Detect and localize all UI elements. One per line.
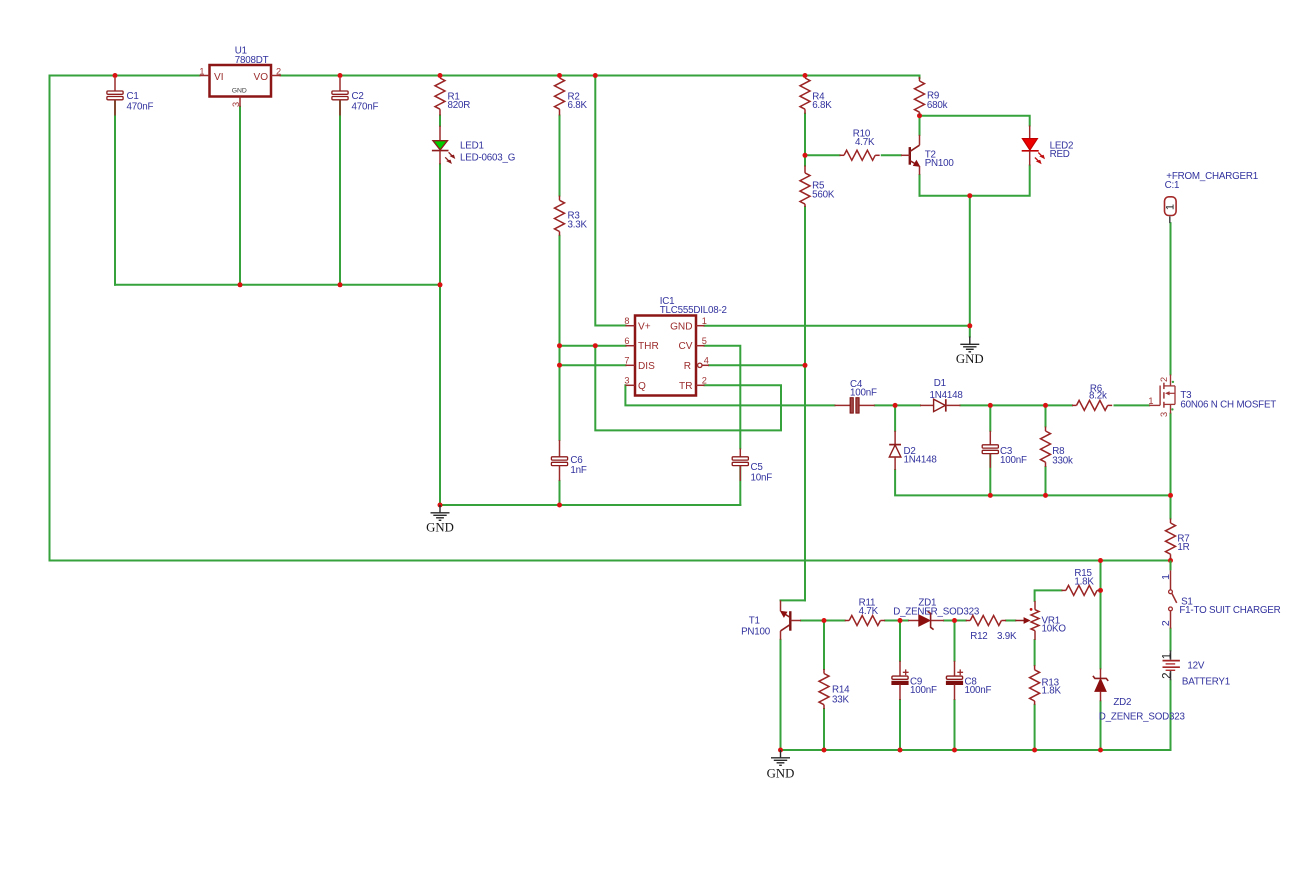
svg-text:3.9K: 3.9K <box>997 631 1017 642</box>
wire R1-LED1 joints <box>439 116 441 126</box>
node C2 bottom <box>338 282 343 287</box>
wire top rail right segment <box>281 76 920 79</box>
wire C8 bottom <box>954 700 956 750</box>
switch S1 <box>1160 561 1281 629</box>
svg-text:V+: V+ <box>638 322 651 333</box>
wire T2 loop bottom <box>920 166 1030 196</box>
wire C6 bottom <box>559 481 561 505</box>
node R8 top <box>1043 403 1048 408</box>
svg-text:TR: TR <box>679 381 692 392</box>
node gnd T1 <box>778 748 783 753</box>
wire R12 left <box>955 620 966 622</box>
svg-text:DIS: DIS <box>638 361 655 372</box>
wire battery to gnd rail <box>781 680 1171 750</box>
svg-text:100nF: 100nF <box>1000 455 1027 466</box>
resistor R15 <box>1062 568 1101 595</box>
svg-text:10nF: 10nF <box>751 472 773 483</box>
svg-text:LED-0603_G: LED-0603_G <box>460 152 515 163</box>
wire gnd stub x970 <box>969 196 971 337</box>
wire IC gnd pin line <box>705 325 970 327</box>
node R9 bottom <box>917 113 922 118</box>
wire T1 emitter feed <box>781 599 806 601</box>
resistor R3 <box>555 196 588 236</box>
wire R11 to C9 node <box>885 620 908 622</box>
svg-text:GND: GND <box>767 767 795 781</box>
IC IC1 TLC555DIL08-2 <box>624 296 726 396</box>
svg-text:3.3K: 3.3K <box>568 220 588 231</box>
node V+ rail tap <box>593 73 598 78</box>
svg-text:470nF: 470nF <box>352 101 379 112</box>
zener diode ZD2 <box>1093 668 1186 722</box>
wire base rail segments <box>824 620 845 622</box>
transistor T2 PN100 <box>901 135 955 175</box>
svg-text:7808DT: 7808DT <box>235 55 269 66</box>
svg-text:60N06 N CH MOSFET: 60N06 N CH MOSFET <box>1180 399 1276 410</box>
wire R9 bottom to T2 collector <box>919 116 921 135</box>
resistor R9 <box>915 77 948 116</box>
wire C5 bottom <box>739 466 741 505</box>
wire R5 bottom long vertical <box>804 207 806 601</box>
transistor T1 PN100 <box>741 600 801 639</box>
wire R7 bottom <box>1170 559 1172 561</box>
node source rail right <box>1168 493 1173 498</box>
svg-text:1N4148: 1N4148 <box>904 455 938 466</box>
resistor R4 <box>800 78 832 114</box>
node LED1 rail <box>438 282 443 287</box>
zener diode ZD1 <box>893 598 980 630</box>
svg-text:1: 1 <box>1148 396 1153 406</box>
svg-text:2: 2 <box>1161 672 1173 678</box>
wire R7 top <box>1170 495 1172 518</box>
wire R10 left <box>805 154 840 156</box>
resistor R6 <box>1072 384 1112 411</box>
node gnd C8 <box>952 748 957 753</box>
node gnd ZD2 <box>1098 748 1103 753</box>
capacitor C9 <box>892 661 937 700</box>
node R4 top <box>803 73 808 78</box>
wire R15 right node <box>1100 589 1101 591</box>
connector +FROM_CHARGER1 <box>1165 171 1258 223</box>
wire R13 bottom <box>1034 705 1036 750</box>
capacitor C6 <box>551 440 586 481</box>
node R2 top <box>557 73 562 78</box>
svg-text:10KO: 10KO <box>1042 624 1067 635</box>
svg-text:2: 2 <box>276 67 281 77</box>
resistor R2 <box>555 78 588 116</box>
svg-text:GND: GND <box>670 322 692 333</box>
svg-text:100nF: 100nF <box>910 685 937 696</box>
wire R8 top <box>1045 405 1047 426</box>
wire R3 to THR/DIS column <box>559 236 561 440</box>
svg-text:3: 3 <box>231 102 241 107</box>
wire C2 column lower <box>339 100 341 285</box>
svg-text:1: 1 <box>199 67 204 77</box>
svg-text:1.8K: 1.8K <box>1042 685 1062 696</box>
svg-text:2: 2 <box>702 375 707 385</box>
svg-text:C5: C5 <box>751 462 764 473</box>
svg-text:VI: VI <box>214 72 224 83</box>
ground symbol GND right <box>956 337 984 367</box>
svg-text:560K: 560K <box>812 190 835 201</box>
resistor R7 <box>1166 519 1190 559</box>
svg-text:BATTERY1: BATTERY1 <box>1182 677 1230 688</box>
wire V+ feed vertical <box>595 76 625 326</box>
LED LED1 <box>432 126 515 165</box>
wire mid gnd rail y285 <box>115 284 440 286</box>
resistor R13 <box>1030 665 1062 705</box>
svg-text:1: 1 <box>1160 574 1172 580</box>
svg-text:+FROM_CHARGER1: +FROM_CHARGER1 <box>1166 171 1258 182</box>
capacitor C5 <box>732 448 772 483</box>
svg-text:4.7K: 4.7K <box>859 606 879 617</box>
svg-text:8.2k: 8.2k <box>1089 391 1107 402</box>
wire C3 node to R6 <box>1046 404 1073 406</box>
node gnd rail x440 <box>438 503 443 508</box>
wire R14 top <box>823 621 825 670</box>
node THR loop tap <box>593 343 598 348</box>
node THR left <box>557 343 562 348</box>
capacitor C4 <box>835 379 877 413</box>
ground symbol GND bottom <box>767 750 795 781</box>
node C6 bottom <box>557 503 562 508</box>
wire C3 top <box>989 405 991 430</box>
svg-text:GND: GND <box>426 521 454 535</box>
svg-text:R12: R12 <box>970 631 987 642</box>
capacitor C1 <box>107 78 154 116</box>
resistor R12 <box>966 616 1017 643</box>
svg-text:2: 2 <box>1160 620 1172 626</box>
node ZD2 top rail <box>1098 558 1103 563</box>
svg-text:3: 3 <box>624 375 629 385</box>
wire D1 to C3 node <box>961 404 1046 406</box>
resistor R10 <box>840 129 880 161</box>
svg-text:820R: 820R <box>448 100 471 111</box>
wire ZD2 column lower <box>1100 701 1102 750</box>
battery BATTERY1 12V <box>1161 650 1230 687</box>
svg-text:6.8K: 6.8K <box>812 100 832 111</box>
wire R10 right to T2 base <box>882 154 901 156</box>
wire CV to C5 <box>705 346 741 449</box>
svg-text:5: 5 <box>702 336 707 346</box>
resistor R11 <box>845 597 885 625</box>
svg-text:7: 7 <box>624 355 629 365</box>
wire THR-TR loop <box>595 346 781 431</box>
node R15 right <box>1098 588 1103 593</box>
regulator U1 7808DT <box>199 46 281 108</box>
wire charger to T3 drain <box>1170 223 1172 374</box>
wire VR1 to R13 <box>1034 640 1036 665</box>
node C1 top <box>113 73 118 78</box>
svg-text:GND: GND <box>956 352 984 366</box>
wire D2 top <box>894 405 896 430</box>
svg-text:T1: T1 <box>749 615 760 626</box>
wire R12 right to VR1 wiper <box>1006 620 1015 622</box>
node C3 bottom <box>988 493 993 498</box>
wire R4R5 divider column <box>804 114 806 166</box>
wire D2 bottom <box>895 470 1170 495</box>
wire U1 pin3 column <box>239 107 241 285</box>
svg-text:VO: VO <box>254 72 269 83</box>
svg-text:1N4148: 1N4148 <box>930 390 964 401</box>
node T2 emitter rail <box>967 193 972 198</box>
svg-text:F1-TO SUIT CHARGER: F1-TO SUIT CHARGER <box>1179 605 1280 616</box>
wire C4 to D1 node <box>875 404 920 406</box>
svg-text:1nF: 1nF <box>570 465 586 476</box>
node C9 top <box>898 618 903 623</box>
svg-text:CV: CV <box>678 341 692 352</box>
wire C9 top <box>899 621 901 661</box>
wire long bottom rail y560 <box>50 560 1171 562</box>
capacitor C8 <box>946 661 991 700</box>
resistor R1 <box>435 78 470 116</box>
svg-text:LED1: LED1 <box>460 141 484 152</box>
svg-text:D_ZENER_SOD323: D_ZENER_SOD323 <box>893 606 980 617</box>
diode D2 1N4148 <box>889 431 937 470</box>
wire C1 column lower <box>114 100 116 285</box>
svg-text:TLC555DIL08-2: TLC555DIL08-2 <box>660 305 727 316</box>
svg-text:8: 8 <box>624 316 629 326</box>
potentiometer VR1 <box>1015 601 1066 640</box>
capacitor C2 <box>332 78 379 116</box>
MOSFET T3 60N06 <box>1148 375 1276 418</box>
node C2 top <box>338 73 343 78</box>
wire LED1 to mid rail <box>439 164 441 284</box>
wire gnd rail y505 <box>440 504 740 506</box>
node gnd R14 <box>822 748 827 753</box>
node T1 base R14 <box>822 618 827 623</box>
svg-text:1: 1 <box>1165 204 1177 210</box>
wire R pin line <box>709 364 805 366</box>
node U1 gnd rail <box>238 282 243 287</box>
svg-text:PN100: PN100 <box>741 627 771 638</box>
wire R6 to T3 gate <box>1115 404 1150 406</box>
svg-text:330k: 330k <box>1052 455 1073 466</box>
node R4 R5 junction <box>803 153 808 158</box>
node R8 bottom <box>1043 493 1048 498</box>
wire T3 source to rail <box>1170 414 1172 496</box>
svg-text:D_ZENER_SOD323: D_ZENER_SOD323 <box>1099 712 1186 723</box>
wire T1 base segment <box>801 620 824 622</box>
LED LED2 <box>1022 126 1074 166</box>
svg-text:4.7K: 4.7K <box>855 137 875 148</box>
svg-text:D1: D1 <box>934 378 946 389</box>
wire S1 to battery <box>1170 629 1172 651</box>
diode D1 1N4148 <box>920 378 963 411</box>
resistor R8 <box>1041 427 1074 467</box>
svg-text:680k: 680k <box>927 100 948 111</box>
wire R14 bottom <box>823 709 825 750</box>
wire T2 emitter down <box>919 175 921 196</box>
svg-text:2: 2 <box>1159 377 1169 382</box>
svg-text:3: 3 <box>1159 412 1169 417</box>
svg-text:100nF: 100nF <box>850 387 877 398</box>
node gnd C9 <box>898 748 903 753</box>
node C8 top <box>952 618 957 623</box>
svg-text:C:1: C:1 <box>1165 180 1180 191</box>
svg-text:6: 6 <box>624 336 629 346</box>
capacitor C3 <box>982 431 1027 468</box>
wire C3 bottom <box>989 454 991 496</box>
svg-text:PN100: PN100 <box>925 158 955 169</box>
node R pin divider <box>803 363 808 368</box>
node gnd R13 <box>1032 748 1037 753</box>
svg-text:1: 1 <box>1161 653 1173 659</box>
ground symbol GND mid <box>426 505 454 535</box>
resistor R5 <box>800 166 835 207</box>
wire ZD1 to C8 node <box>944 620 966 622</box>
svg-text:THR: THR <box>638 341 659 352</box>
svg-text:ZD2: ZD2 <box>1113 697 1131 708</box>
wire R8 bottom <box>1045 467 1047 496</box>
svg-text:Q: Q <box>638 381 646 392</box>
svg-text:RED: RED <box>1050 149 1070 160</box>
node IC gnd column <box>967 323 972 328</box>
wire LED1 column to gnd rail <box>439 285 441 505</box>
svg-text:6.8K: 6.8K <box>568 100 588 111</box>
node DIS left <box>557 363 562 368</box>
node C4 D2 <box>893 403 898 408</box>
wire THR line <box>560 345 626 347</box>
svg-text:33K: 33K <box>832 694 849 705</box>
wire ZD2 column upper <box>1100 561 1102 669</box>
svg-text:4: 4 <box>704 355 709 365</box>
wire Q output route <box>625 385 834 405</box>
wire R2-R3 column <box>559 116 561 196</box>
wire DIS line <box>560 364 626 366</box>
wire top rail left segment <box>50 76 200 561</box>
resistor R14 <box>819 669 850 709</box>
svg-text:GND: GND <box>232 87 247 94</box>
svg-text:100nF: 100nF <box>965 685 992 696</box>
wire C9 bottom <box>899 700 901 750</box>
svg-text:1.8K: 1.8K <box>1074 576 1094 587</box>
node R7 bottom rail <box>1168 558 1173 563</box>
wire T1 collector down <box>780 640 782 750</box>
wire T2 loop top <box>920 116 1030 126</box>
wire C8 top <box>954 621 956 661</box>
svg-text:12V: 12V <box>1187 660 1204 671</box>
svg-text:R: R <box>684 361 691 372</box>
svg-text:1R: 1R <box>1177 542 1189 553</box>
node D1 C3 <box>988 403 993 408</box>
node R1 top <box>438 73 443 78</box>
wire R15 left feed <box>1035 590 1062 601</box>
svg-text:470nF: 470nF <box>127 101 154 112</box>
svg-text:1: 1 <box>702 316 707 326</box>
